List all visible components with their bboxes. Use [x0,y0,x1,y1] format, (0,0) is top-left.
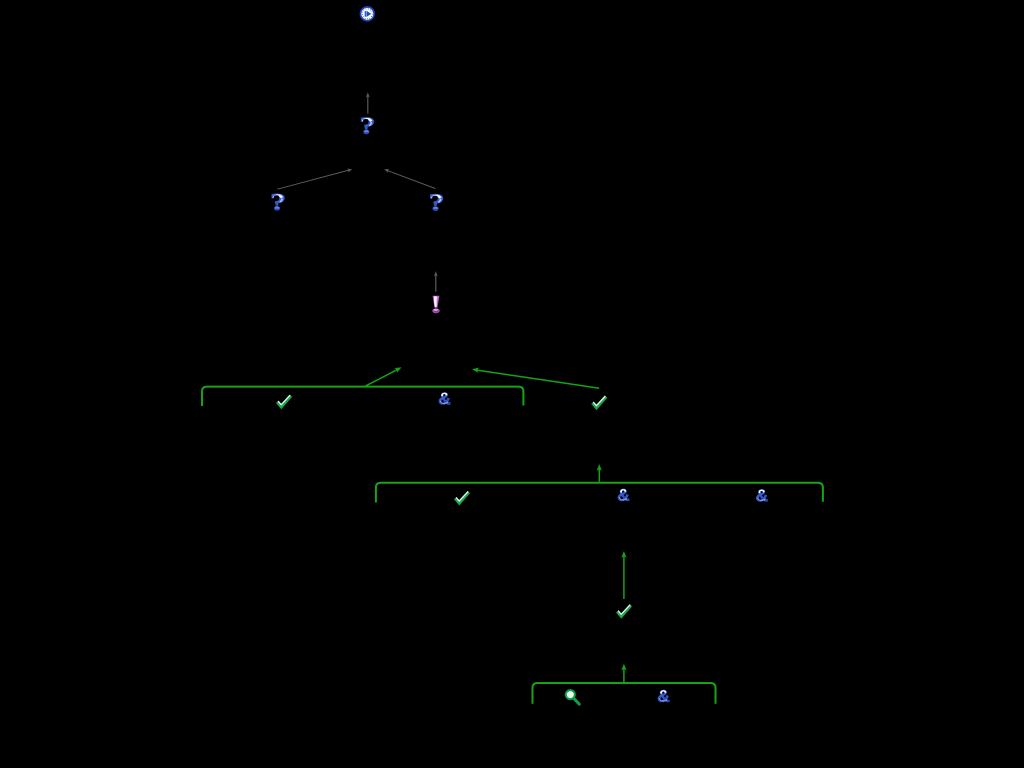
magnifier/search node inside group 3 [566,690,579,704]
bracket group 1 [202,387,523,406]
ampersand node 2 inside group 2 [756,489,767,501]
wire: green arrow from bracket group 1 up-right toward exclamation node [365,365,402,386]
wire: green arrow from bracket group 2 up toward lone check node [597,464,602,482]
question node Q3 [430,194,442,210]
question node Q2 [272,194,284,210]
check node inside group 2 [455,491,469,503]
wire: green arrow from bracket group 3 up toward lower check node [621,664,626,682]
wire: arrow from exclamation node up toward Q3 [434,271,438,291]
wire: arrow from question Q1 up to map node [366,92,370,113]
question node Q1 [361,118,373,134]
ampersand node inside group 1 [439,393,450,405]
ampersand node 1 inside group 2 [618,489,629,501]
wire: arrow from Q2 up-right toward Q1 [277,167,352,189]
lower check node [617,605,631,617]
bracket group 3 [533,683,716,704]
lone check node (right of group 1) [593,396,607,408]
wire: arrow from Q3 up-left toward Q1 [383,167,435,188]
wire: green arrow from lower check node up toward ampersand node 1 [621,551,626,599]
exclamation node (position/idea) [433,296,440,313]
bracket group 2 [376,483,823,503]
wire: green arrow from lone check node up-left toward exclamation node [472,367,599,389]
map node icon (play/circle) [361,7,375,21]
check node inside group 1 [277,395,291,407]
ampersand node inside group 3 [658,690,669,702]
